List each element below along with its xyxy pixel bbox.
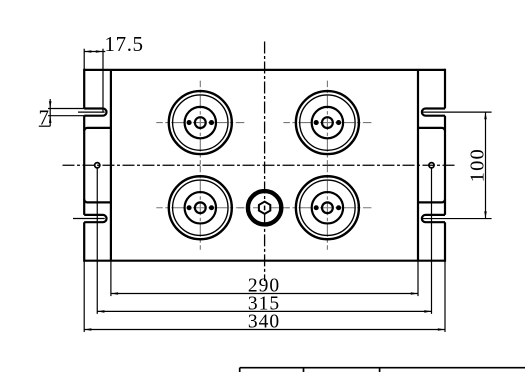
- terminal U1 top-left: [156, 81, 244, 165]
- title block table top line: [240, 367, 525, 369]
- dim 290 left arrow: [111, 292, 118, 295]
- dim 340 ext left: [83, 261, 85, 332]
- dim 100 bottom arrow: [484, 211, 487, 218]
- vertical centerline below stud: [264, 214, 266, 281]
- top-left slot centerline: [78, 111, 105, 113]
- dim 7 extension bottom: [48, 115, 84, 117]
- center stud hexagon: [259, 202, 270, 214]
- dim 7 bottom arrow: [49, 116, 52, 123]
- body right edge: [417, 70, 419, 261]
- dim 7 line vertical: [49, 99, 51, 126]
- left flange hole: [95, 163, 100, 168]
- terminal U4 bottom-right: [283, 166, 371, 250]
- vertical centerline dot in hexagon: [264, 206, 266, 211]
- dim 290 right arrow: [411, 292, 418, 295]
- dim 7 leader under text: [39, 125, 50, 127]
- dim 290 ext right: [417, 261, 419, 296]
- bottom-left slot centerline: [73, 218, 105, 220]
- terminal U3 bottom-left: [156, 166, 244, 250]
- left flange top step: [84, 128, 111, 131]
- plate bottom edge: [84, 260, 445, 262]
- dim 100 extension bottom: [421, 218, 492, 220]
- title block vertical 2: [303, 368, 305, 372]
- horizontal centerline: [63, 164, 458, 166]
- dim 17.5 extension line right: [102, 49, 104, 112]
- dim 340 right arrow: [438, 328, 445, 331]
- center stud horizontal stub right: [271, 207, 291, 209]
- dim 7 extension top: [48, 108, 84, 110]
- plate left outer edge segments: [83, 69, 85, 262]
- left flange bottom step: [84, 199, 111, 202]
- dim 315 right arrow: [424, 310, 431, 313]
- top-left slot: [84, 109, 106, 116]
- terminal U2 top-right: [283, 81, 371, 165]
- hole ext line right: [431, 168, 433, 314]
- dim 340 left arrow: [84, 328, 91, 331]
- right flange top step: [418, 128, 445, 131]
- center stud horizontal stubs: [238, 207, 259, 209]
- dim 290 line: [111, 293, 418, 295]
- dim 290 ext left: [110, 261, 112, 296]
- title block vertical 3: [379, 368, 381, 372]
- top-right slot: [422, 109, 445, 116]
- plate right outer edge segments: [444, 69, 446, 262]
- title block vertical 1: [239, 368, 241, 372]
- dim 17.5 right arrow: [96, 50, 103, 53]
- bottom-left slot: [84, 215, 106, 222]
- plate top edge: [84, 69, 445, 71]
- right flange hole: [429, 163, 434, 168]
- dim 340 line: [84, 329, 445, 331]
- dim 315 left arrow: [97, 310, 104, 313]
- right flange bottom step: [418, 199, 445, 202]
- svg-text:340: 340: [248, 311, 280, 332]
- body left edge: [110, 70, 112, 261]
- svg-text:100: 100: [467, 148, 489, 182]
- bottom-right slot: [422, 215, 445, 222]
- svg-text:17.5: 17.5: [105, 32, 144, 56]
- dim 17.5 extension line left: [83, 49, 85, 70]
- hole ext line left: [96, 168, 98, 314]
- dim 100 top arrow: [484, 112, 487, 119]
- vertical centerline: [264, 42, 266, 202]
- dim 17.5 left arrow: [84, 50, 91, 53]
- svg-text:7: 7: [39, 106, 50, 130]
- dim 17.5 line: [84, 51, 105, 53]
- dim 100 extension top: [421, 111, 492, 113]
- dim 340 ext right: [444, 261, 446, 332]
- dim 7 top arrow: [49, 101, 52, 108]
- center stud ring: [248, 191, 281, 224]
- dim 100 line: [485, 112, 487, 218]
- dim 315 line: [97, 310, 431, 312]
